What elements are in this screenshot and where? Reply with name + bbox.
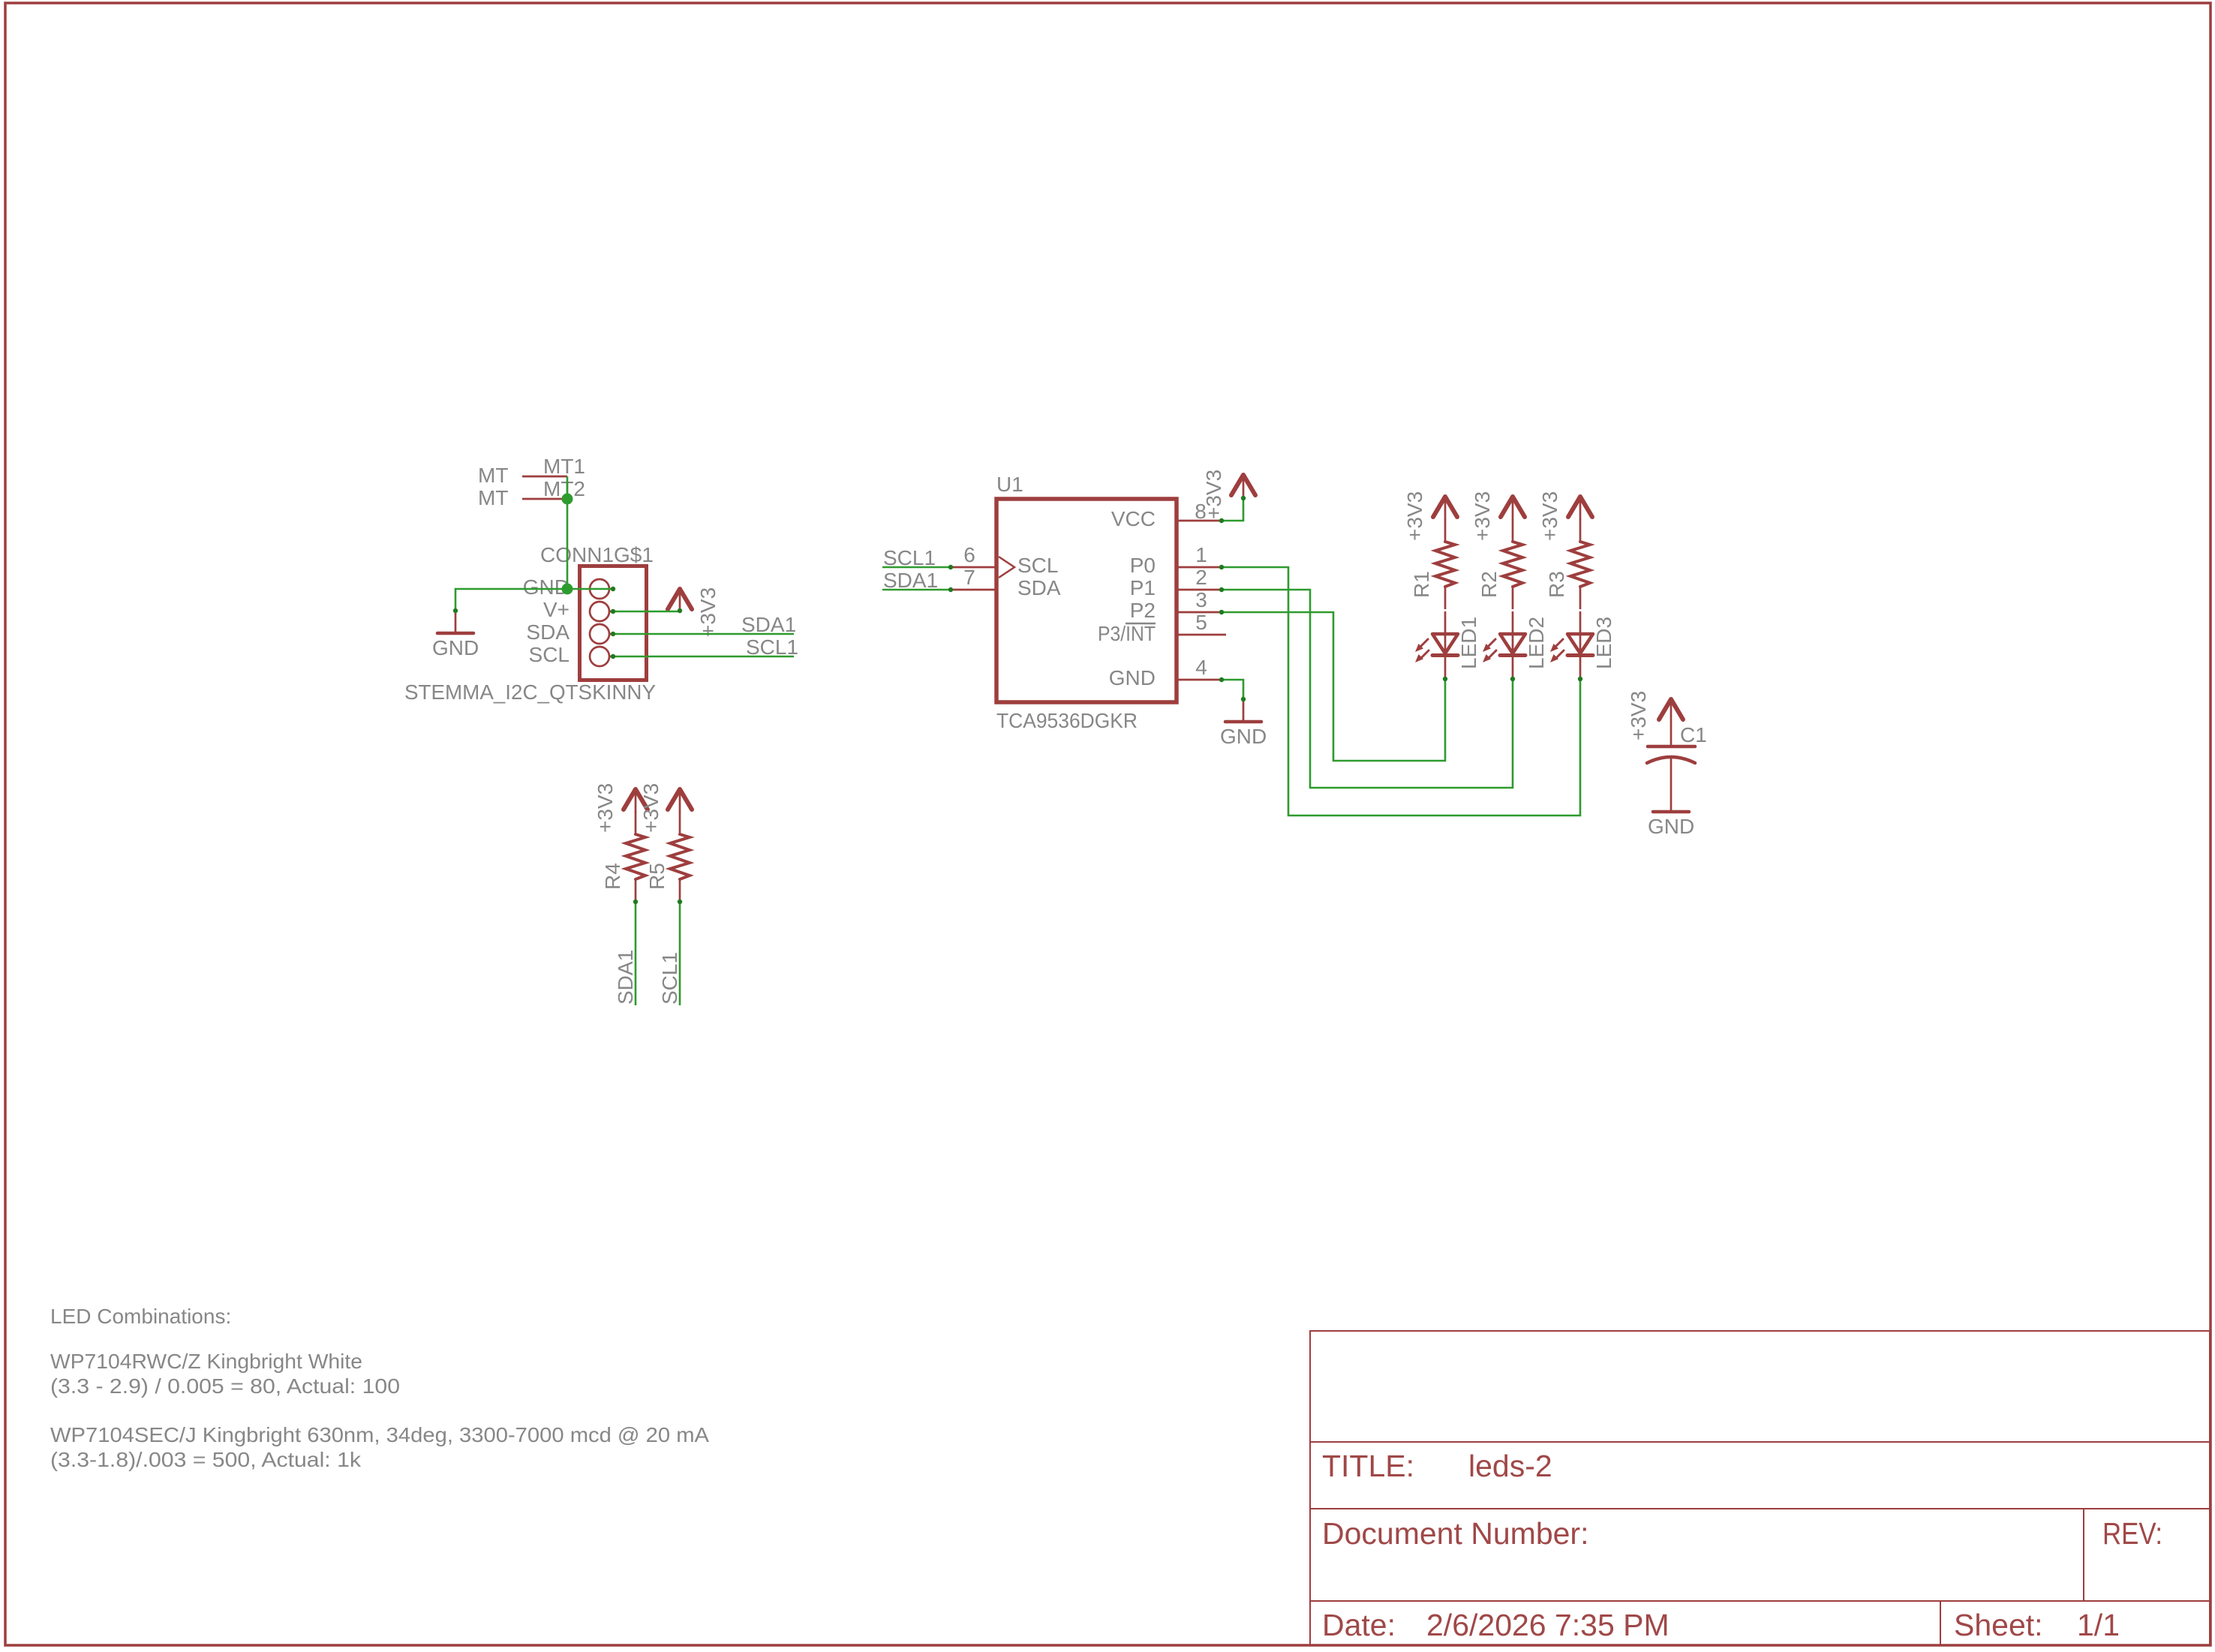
svg-text:(3.3-1.8)/.003 = 500, Actual:: (3.3-1.8)/.003 = 500, Actual: 1k bbox=[50, 1448, 362, 1471]
wire P1 net to LED2 bbox=[1222, 590, 1513, 788]
svg-text:+3V3: +3V3 bbox=[1627, 691, 1650, 740]
connector CONN1 mounting pin MT2 bbox=[478, 477, 585, 509]
wire P2 net to LED1 bbox=[1222, 612, 1445, 761]
svg-text:LED1: LED1 bbox=[1457, 617, 1480, 669]
svg-text:V+: V+ bbox=[543, 598, 570, 621]
svg-text:MT: MT bbox=[478, 464, 508, 487]
IC U1 TCA9536DGKR body bbox=[996, 473, 1177, 732]
connector CONN1 mounting pin MT1 bbox=[478, 455, 585, 487]
wire / net label SCL1 (R5 leg) bbox=[658, 902, 681, 1005]
U1 pin 1 P0 bbox=[1130, 543, 1222, 577]
connector CONN1G$1 body bbox=[404, 543, 656, 704]
svg-text:6: 6 bbox=[963, 543, 975, 566]
capacitor C1 bbox=[1647, 722, 1707, 790]
title block frame bbox=[1310, 1331, 2210, 1645]
resistor R4 bbox=[601, 812, 645, 902]
supply +3V3 (VCC) bbox=[1202, 470, 1255, 519]
svg-text:GND: GND bbox=[1220, 725, 1267, 748]
svg-text:SCL: SCL bbox=[529, 643, 570, 666]
svg-text:+3V3: +3V3 bbox=[1202, 470, 1225, 519]
resistor R3 bbox=[1545, 519, 1590, 609]
svg-text:R4: R4 bbox=[601, 863, 624, 890]
svg-text:STEMMA_I2C_QTSKINNY: STEMMA_I2C_QTSKINNY bbox=[404, 680, 656, 704]
svg-text:Document Number:: Document Number: bbox=[1322, 1516, 1588, 1551]
connector pin GND bbox=[523, 575, 609, 599]
svg-text:U1: U1 bbox=[996, 473, 1023, 496]
ground (U1) bbox=[1220, 700, 1267, 748]
svg-text:5: 5 bbox=[1195, 611, 1207, 634]
svg-text:R3: R3 bbox=[1545, 571, 1568, 598]
U1 pin 2 P1 bbox=[1130, 566, 1222, 599]
svg-text:SCL: SCL bbox=[1017, 554, 1058, 577]
svg-text:P1: P1 bbox=[1130, 576, 1156, 599]
svg-text:R1: R1 bbox=[1410, 571, 1433, 598]
wire / net label SCL1 (connector) bbox=[613, 635, 798, 659]
wire / net label SDA1 (R4 leg) bbox=[614, 902, 637, 1005]
svg-text:(3.3 - 2.9) / 0.005 = 80, Actu: (3.3 - 2.9) / 0.005 = 80, Actual: 100 bbox=[50, 1374, 400, 1398]
svg-text:VCC: VCC bbox=[1111, 507, 1156, 530]
wire U1 GND to ground symbol bbox=[1222, 680, 1243, 700]
U1 pin 3 P2 bbox=[1130, 588, 1222, 622]
svg-text:2/6/2026 7:35 PM: 2/6/2026 7:35 PM bbox=[1426, 1608, 1670, 1642]
svg-text:WP7104RWC/Z Kingbright White: WP7104RWC/Z Kingbright White bbox=[50, 1350, 362, 1373]
svg-text:+3V3: +3V3 bbox=[1403, 491, 1426, 541]
svg-text:SDA1: SDA1 bbox=[614, 950, 637, 1005]
ground (C1) bbox=[1648, 790, 1694, 838]
LED LED1 bbox=[1415, 611, 1480, 679]
note text: LED combinations bbox=[50, 1305, 709, 1471]
svg-text:7: 7 bbox=[963, 566, 975, 589]
U1 pin 6 SCL (clock input) bbox=[951, 543, 1058, 578]
wire GND pin to ground symbol bbox=[455, 589, 613, 611]
svg-text:GND: GND bbox=[432, 636, 479, 659]
wire V+ pin to +3V3 bbox=[613, 611, 680, 613]
svg-text:2: 2 bbox=[1195, 566, 1207, 589]
junction MT2 / GND net bbox=[562, 494, 573, 505]
svg-text:TITLE:: TITLE: bbox=[1322, 1449, 1414, 1483]
svg-text:SDA: SDA bbox=[526, 620, 570, 644]
connector pin SCL bbox=[529, 643, 614, 666]
wire / net label SDA1 (connector) bbox=[613, 613, 796, 636]
supply +3V3 (V+) bbox=[668, 587, 720, 637]
connector pin SDA bbox=[526, 620, 614, 644]
svg-text:LED Combinations:: LED Combinations: bbox=[50, 1305, 231, 1328]
svg-text:SCL1: SCL1 bbox=[746, 635, 798, 659]
svg-text:leds-2: leds-2 bbox=[1468, 1449, 1552, 1483]
svg-text:TCA9536DGKR: TCA9536DGKR bbox=[996, 709, 1138, 732]
LED LED3 bbox=[1550, 611, 1615, 679]
resistor R1 bbox=[1410, 519, 1455, 609]
U1 pin 7 SDA bbox=[951, 566, 1061, 599]
svg-text:Sheet:: Sheet: bbox=[1954, 1608, 2043, 1642]
svg-text:C1: C1 bbox=[1680, 723, 1707, 746]
svg-text:REV:: REV: bbox=[2102, 1516, 2162, 1551]
U1 pin 5 P3/INT bbox=[1098, 611, 1226, 645]
svg-text:P0: P0 bbox=[1130, 554, 1156, 577]
title block date row bbox=[1322, 1608, 2120, 1642]
svg-text:SDA: SDA bbox=[1017, 576, 1061, 599]
svg-text:1/1: 1/1 bbox=[2077, 1608, 2120, 1642]
svg-text:+3V3: +3V3 bbox=[696, 587, 720, 637]
supply +3V3 (C1) bbox=[1627, 691, 1683, 740]
svg-text:4: 4 bbox=[1195, 656, 1207, 679]
svg-text:LED2: LED2 bbox=[1525, 617, 1548, 669]
wire / net label SDA1 (U1 side) bbox=[882, 569, 951, 592]
svg-text:SCL1: SCL1 bbox=[883, 546, 936, 569]
LED LED2 bbox=[1483, 611, 1548, 679]
supply +3V3 (R1) bbox=[1403, 491, 1457, 541]
wire MT1/MT2 to connector GND pin bbox=[567, 476, 569, 589]
supply +3V3 (R3) bbox=[1538, 491, 1592, 541]
supply +3V3 (R4) bbox=[594, 783, 648, 833]
junction connector GND pin bbox=[562, 584, 573, 595]
wire / net label SCL1 (U1 side) bbox=[882, 546, 951, 569]
svg-text:+3V3: +3V3 bbox=[1471, 491, 1494, 541]
ground (connector) bbox=[432, 611, 479, 659]
U1 pin 4 GND bbox=[1109, 656, 1222, 689]
title block document number row bbox=[1322, 1516, 2162, 1551]
svg-text:SCL1: SCL1 bbox=[658, 952, 681, 1005]
wire P0 net to LED3 bbox=[1222, 567, 1580, 815]
resistor R2 bbox=[1477, 519, 1522, 609]
svg-text:LED3: LED3 bbox=[1592, 617, 1615, 669]
svg-text:GND: GND bbox=[1648, 815, 1694, 838]
svg-text:SDA1: SDA1 bbox=[883, 569, 938, 592]
U1 pin 8 VCC bbox=[1111, 500, 1222, 530]
svg-text:P2: P2 bbox=[1130, 599, 1156, 622]
pin connection points bbox=[453, 496, 1582, 904]
title block TITLE row bbox=[1322, 1449, 1552, 1483]
resistor R5 bbox=[645, 812, 690, 902]
svg-text:MT: MT bbox=[478, 486, 508, 509]
supply +3V3 (R5) bbox=[639, 783, 692, 833]
wire VCC to +3V3 bbox=[1222, 497, 1243, 521]
svg-text:1: 1 bbox=[1195, 543, 1207, 566]
svg-text:+3V3: +3V3 bbox=[594, 783, 617, 833]
svg-text:P3/INT: P3/INT bbox=[1098, 622, 1156, 645]
svg-text:SDA1: SDA1 bbox=[741, 613, 796, 636]
svg-text:R2: R2 bbox=[1477, 571, 1501, 598]
svg-text:MT1: MT1 bbox=[543, 455, 585, 478]
svg-text:WP7104SEC/J Kingbright 630nm,: WP7104SEC/J Kingbright 630nm, 34deg, 330… bbox=[50, 1423, 709, 1446]
svg-text:+3V3: +3V3 bbox=[1538, 491, 1561, 541]
svg-text:Date:: Date: bbox=[1322, 1608, 1396, 1642]
svg-text:+3V3: +3V3 bbox=[639, 783, 663, 833]
svg-text:GND: GND bbox=[1109, 666, 1156, 689]
svg-text:3: 3 bbox=[1195, 588, 1207, 611]
supply +3V3 (R2) bbox=[1471, 491, 1525, 541]
svg-text:R5: R5 bbox=[645, 863, 669, 890]
connector pin V+ bbox=[543, 598, 614, 621]
svg-text:CONN1G$1: CONN1G$1 bbox=[540, 543, 654, 566]
